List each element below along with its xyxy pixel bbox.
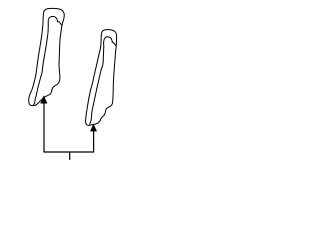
right arrowhead [90,124,97,131]
left arrowhead [41,96,48,104]
bracket horizontal line [43,151,94,153]
right strap part fold line with top curl [90,37,116,124]
left strap part outline [29,8,65,105]
left strap part fold line with top curl [33,16,61,105]
right leader line shaft [93,131,95,152]
bracket center tick [69,152,71,160]
left leader line shaft [43,103,45,152]
right strap part outline [86,30,117,126]
